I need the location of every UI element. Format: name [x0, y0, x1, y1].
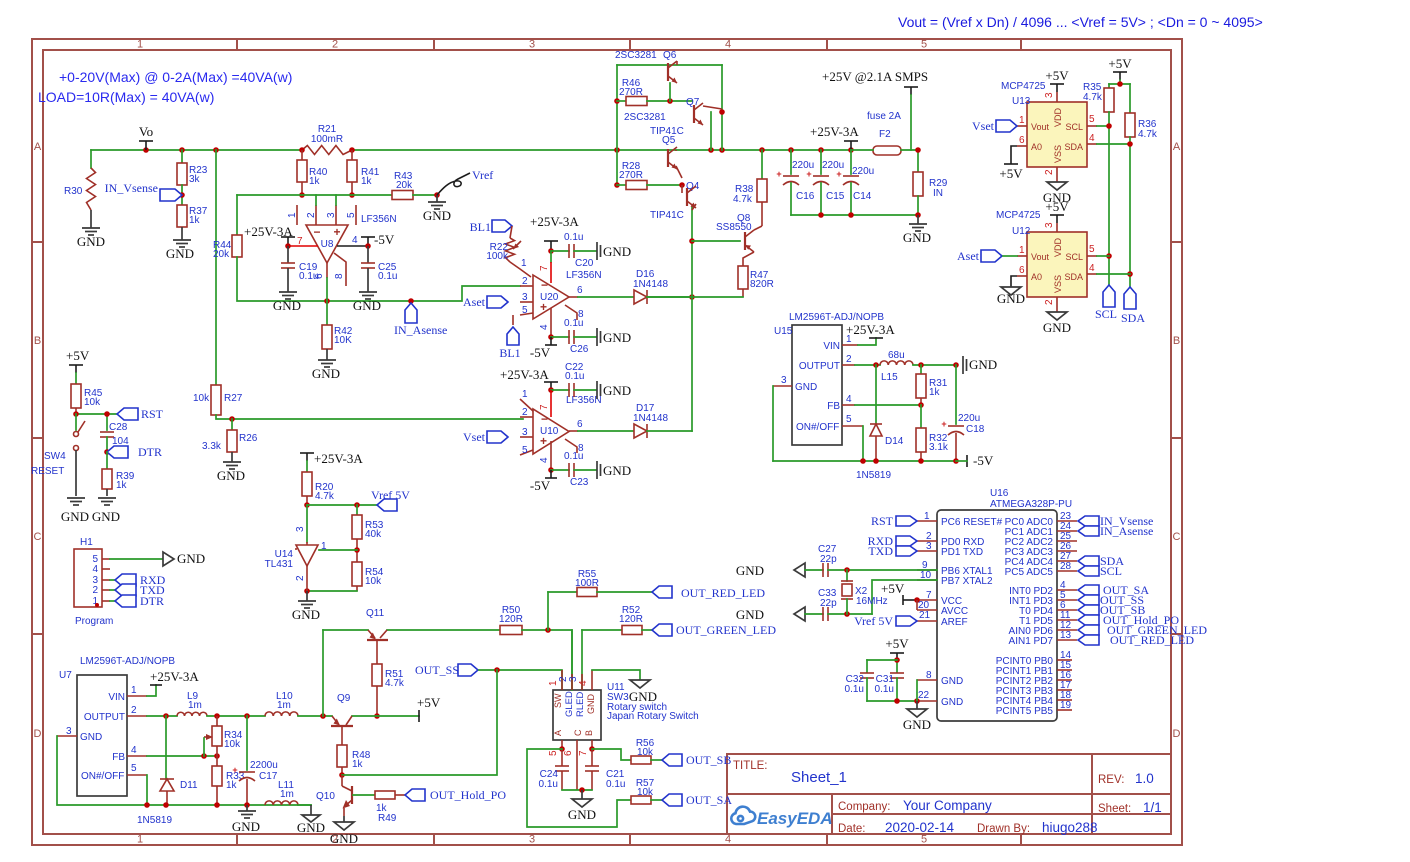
svg-text:16MHz: 16MHz — [856, 596, 888, 607]
svg-text:2: 2 — [295, 575, 306, 581]
svg-text:1k: 1k — [309, 176, 321, 187]
svg-text:VDD: VDD — [1053, 107, 1063, 127]
svg-text:C23: C23 — [570, 477, 589, 488]
svg-text:1N5819: 1N5819 — [856, 470, 891, 481]
svg-text:4: 4 — [92, 564, 98, 575]
svg-text:VIN: VIN — [108, 692, 125, 703]
svg-text:4: 4 — [352, 235, 358, 246]
svg-text:Sheet:: Sheet: — [1098, 803, 1131, 815]
svg-text:SCL: SCL — [1065, 122, 1083, 132]
svg-text:+5V: +5V — [999, 166, 1023, 181]
svg-text:C20: C20 — [575, 258, 594, 269]
svg-text:-5V: -5V — [530, 345, 551, 360]
svg-text:0.1u: 0.1u — [564, 451, 583, 462]
svg-text:5: 5 — [1089, 114, 1095, 125]
svg-text:GND: GND — [603, 383, 631, 398]
svg-text:19: 19 — [1060, 700, 1072, 711]
svg-text:OUTPUT: OUTPUT — [799, 361, 840, 372]
svg-text:fuse 2A: fuse 2A — [867, 111, 901, 122]
svg-text:GND: GND — [353, 298, 381, 313]
svg-text:5: 5 — [522, 445, 528, 456]
svg-text:3.3k: 3.3k — [202, 441, 222, 452]
svg-text:GND: GND — [330, 831, 358, 846]
svg-text:2SC3281: 2SC3281 — [624, 112, 666, 123]
svg-text:270R: 270R — [619, 170, 643, 181]
svg-text:OUT_Hold_PO: OUT_Hold_PO — [430, 788, 506, 802]
svg-text:1: 1 — [1019, 115, 1025, 126]
svg-text:0.1u: 0.1u — [875, 684, 894, 695]
svg-text:Company:: Company: — [838, 801, 890, 813]
svg-text:hiugo288: hiugo288 — [1042, 820, 1098, 835]
svg-text:LOAD=10R(Max) = 40VA(w): LOAD=10R(Max) = 40VA(w) — [38, 89, 214, 105]
svg-text:220u: 220u — [852, 166, 874, 177]
svg-text:1N4148: 1N4148 — [633, 413, 668, 424]
svg-text:-5V: -5V — [374, 232, 395, 247]
svg-text:D11: D11 — [180, 780, 198, 791]
svg-text:100k: 100k — [486, 251, 509, 262]
svg-text:GND: GND — [232, 819, 260, 834]
svg-text:RST: RST — [871, 514, 894, 528]
svg-text:VIN: VIN — [823, 341, 840, 352]
svg-text:3: 3 — [522, 292, 528, 303]
svg-text:-5V: -5V — [530, 478, 551, 493]
svg-text:7: 7 — [578, 750, 589, 756]
svg-text:U16: U16 — [990, 488, 1009, 499]
svg-text:Aset: Aset — [957, 249, 980, 263]
svg-text:SCL: SCL — [1100, 564, 1122, 578]
svg-text:1: 1 — [131, 685, 137, 696]
svg-text:GND: GND — [61, 509, 89, 524]
svg-text:C: C — [34, 531, 42, 543]
svg-text:SW: SW — [553, 693, 563, 708]
svg-text:LF356N: LF356N — [566, 270, 602, 281]
svg-text:F2: F2 — [879, 129, 891, 140]
svg-text:D14: D14 — [885, 436, 904, 447]
svg-text:Vo: Vo — [139, 124, 153, 139]
svg-text:+25V-3A: +25V-3A — [314, 451, 363, 466]
svg-text:1k: 1k — [189, 215, 201, 226]
svg-text:BL1: BL1 — [499, 346, 520, 360]
svg-text:GND: GND — [1043, 320, 1071, 335]
svg-text:8: 8 — [334, 273, 345, 279]
svg-text:+: + — [333, 225, 340, 239]
svg-text:LM2596T-ADJ/NOPB: LM2596T-ADJ/NOPB — [80, 656, 175, 667]
svg-text:5: 5 — [921, 834, 927, 846]
svg-text:B: B — [1173, 335, 1180, 347]
svg-text:0.1u: 0.1u — [565, 371, 584, 382]
svg-text:3: 3 — [295, 526, 306, 532]
svg-text:+25V-3A: +25V-3A — [500, 367, 549, 382]
svg-text:+: + — [232, 765, 237, 775]
svg-text:1k: 1k — [226, 780, 238, 791]
svg-text:+25V @2.1A SMPS: +25V @2.1A SMPS — [822, 69, 928, 84]
svg-text:1: 1 — [1019, 245, 1025, 256]
svg-text:5: 5 — [346, 212, 357, 218]
svg-text:C18: C18 — [966, 424, 985, 435]
svg-text:+5V: +5V — [1045, 199, 1069, 214]
svg-text:13: 13 — [1060, 630, 1072, 641]
svg-text:−: − — [541, 412, 548, 426]
svg-text:VDD: VDD — [1053, 237, 1063, 257]
svg-text:Your Company: Your Company — [903, 798, 992, 813]
svg-text:U10: U10 — [540, 426, 559, 437]
svg-text:VSS: VSS — [1053, 145, 1063, 163]
svg-text:EasyEDA: EasyEDA — [757, 809, 833, 828]
svg-text:Vout = (Vref x Dn) / 4096 ...: Vout = (Vref x Dn) / 4096 ... <Vref = 5V… — [898, 14, 1263, 30]
svg-text:ATMEGA328P-PU: ATMEGA328P-PU — [990, 499, 1072, 510]
svg-text:R49: R49 — [378, 813, 397, 824]
svg-text:Vset: Vset — [463, 430, 486, 444]
svg-text:1: 1 — [137, 834, 143, 846]
svg-text:-5V: -5V — [973, 453, 994, 468]
svg-text:U12: U12 — [1012, 226, 1031, 237]
svg-text:A0: A0 — [1031, 142, 1042, 152]
svg-text:OUTPUT: OUTPUT — [84, 712, 125, 723]
svg-text:LF356N: LF356N — [361, 214, 397, 225]
svg-text:22p: 22p — [820, 598, 837, 609]
svg-text:GND: GND — [795, 382, 817, 393]
svg-text:GND: GND — [736, 563, 764, 578]
svg-text:3: 3 — [326, 212, 337, 218]
svg-text:4: 4 — [1089, 133, 1095, 144]
svg-text:270R: 270R — [619, 87, 643, 98]
svg-text:21: 21 — [919, 610, 931, 621]
svg-text:OUT_RED_LED: OUT_RED_LED — [1110, 633, 1194, 647]
svg-text:4: 4 — [846, 394, 852, 405]
svg-text:GND: GND — [969, 357, 997, 372]
svg-text:GND: GND — [568, 807, 596, 822]
svg-text:OUT_GREEN_LED: OUT_GREEN_LED — [676, 623, 776, 637]
svg-text:GLED: GLED — [564, 691, 575, 717]
svg-text:+5V: +5V — [881, 581, 905, 596]
svg-text:GND: GND — [941, 697, 963, 708]
svg-text:B: B — [34, 335, 41, 347]
svg-text:4: 4 — [1089, 263, 1095, 274]
svg-text:2: 2 — [846, 354, 852, 365]
svg-text:0.1u: 0.1u — [564, 318, 583, 329]
svg-text:GND: GND — [997, 291, 1025, 306]
svg-text:1m: 1m — [280, 789, 294, 800]
svg-text:Q11: Q11 — [366, 608, 385, 619]
svg-text:C26: C26 — [570, 344, 589, 355]
svg-text:Japan Rotary Switch: Japan Rotary Switch — [607, 711, 699, 722]
svg-text:1: 1 — [137, 39, 143, 51]
svg-text:Date:: Date: — [838, 823, 866, 835]
svg-text:6: 6 — [577, 285, 583, 296]
svg-text:4.7k: 4.7k — [1083, 92, 1103, 103]
svg-text:SDA: SDA — [1064, 272, 1083, 282]
svg-text:C17: C17 — [259, 771, 278, 782]
svg-text:+: + — [941, 419, 946, 429]
svg-text:0.1u: 0.1u — [539, 779, 558, 790]
svg-text:6: 6 — [314, 273, 325, 279]
svg-text:1N4148: 1N4148 — [633, 279, 668, 290]
svg-text:OUT_RED_LED: OUT_RED_LED — [681, 586, 765, 600]
svg-text:1k: 1k — [352, 759, 364, 770]
svg-text:5: 5 — [1089, 244, 1095, 255]
svg-text:BL1: BL1 — [470, 220, 491, 234]
svg-text:GND: GND — [177, 551, 205, 566]
svg-text:2200u: 2200u — [250, 760, 278, 771]
svg-text:3: 3 — [522, 427, 528, 438]
svg-text:+25V-3A: +25V-3A — [530, 214, 579, 229]
svg-text:Vref: Vref — [472, 168, 493, 182]
svg-text:MCP4725: MCP4725 — [996, 210, 1041, 221]
svg-text:OUT_SB: OUT_SB — [686, 753, 731, 767]
svg-text:TXD: TXD — [868, 544, 893, 558]
svg-text:2: 2 — [1044, 299, 1055, 305]
svg-text:AIN1 PD7: AIN1 PD7 — [1009, 636, 1054, 647]
svg-text:220u: 220u — [958, 413, 980, 424]
svg-text:1m: 1m — [188, 700, 202, 711]
svg-text:20k: 20k — [396, 180, 413, 191]
svg-text:GND: GND — [941, 676, 963, 687]
svg-text:2: 2 — [131, 705, 137, 716]
svg-text:C: C — [1173, 531, 1181, 543]
svg-text:PCINT5 PB5: PCINT5 PB5 — [996, 706, 1054, 717]
svg-text:D: D — [34, 728, 42, 740]
svg-text:IN_Asense: IN_Asense — [1100, 524, 1153, 538]
svg-text:Drawn By:: Drawn By: — [977, 823, 1030, 835]
svg-text:2: 2 — [522, 407, 528, 418]
svg-text:TIP41C: TIP41C — [650, 210, 684, 221]
svg-text:2SC3281: 2SC3281 — [615, 50, 657, 61]
svg-text:IN_Asense: IN_Asense — [394, 323, 447, 337]
svg-text:0.1u: 0.1u — [378, 271, 397, 282]
svg-text:10k: 10k — [637, 747, 654, 758]
svg-text:VSS: VSS — [1053, 275, 1063, 293]
svg-text:68u: 68u — [888, 350, 905, 361]
svg-text:2: 2 — [522, 276, 528, 287]
svg-text:3: 3 — [1044, 222, 1055, 228]
svg-text:4: 4 — [725, 39, 731, 51]
svg-text:PC6 RESET#: PC6 RESET# — [941, 517, 1003, 528]
svg-text:SCL: SCL — [1065, 252, 1083, 262]
svg-text:PD1 TXD: PD1 TXD — [941, 547, 983, 558]
svg-text:RLED: RLED — [575, 692, 586, 717]
svg-text:ON#/OFF: ON#/OFF — [81, 771, 124, 782]
svg-text:0.1u: 0.1u — [564, 232, 583, 243]
svg-text:0.1u: 0.1u — [845, 684, 864, 695]
svg-text:−: − — [313, 225, 320, 239]
svg-text:R30: R30 — [64, 186, 83, 197]
svg-text:SCL: SCL — [1095, 307, 1117, 321]
svg-text:1: 1 — [522, 389, 528, 400]
svg-text:2: 2 — [1044, 169, 1055, 175]
svg-text:GND: GND — [292, 607, 320, 622]
svg-text:Vref 5V: Vref 5V — [854, 614, 893, 628]
svg-text:Q9: Q9 — [337, 693, 351, 704]
svg-text:GND: GND — [297, 820, 325, 835]
svg-text:RESET: RESET — [31, 466, 64, 477]
svg-text:820R: 820R — [750, 279, 774, 290]
svg-text:Program: Program — [75, 616, 113, 627]
svg-text:+5V: +5V — [66, 348, 90, 363]
svg-text:120R: 120R — [499, 614, 523, 625]
svg-text:FB: FB — [827, 401, 840, 412]
svg-text:10k: 10k — [193, 393, 210, 404]
svg-text:ON#/OFF: ON#/OFF — [796, 422, 839, 433]
svg-text:DTR: DTR — [140, 594, 164, 608]
svg-text:DTR: DTR — [138, 445, 162, 459]
svg-text:4: 4 — [539, 324, 550, 330]
svg-text:GND: GND — [603, 244, 631, 259]
svg-text:4.7k: 4.7k — [1138, 129, 1158, 140]
svg-text:GND: GND — [736, 607, 764, 622]
svg-text:1: 1 — [924, 511, 930, 522]
svg-text:5: 5 — [846, 414, 852, 425]
svg-text:10k: 10k — [365, 576, 382, 587]
svg-text:GND: GND — [77, 234, 105, 249]
svg-text:+5V: +5V — [885, 636, 909, 651]
svg-text:PB7 XTAL2: PB7 XTAL2 — [941, 576, 993, 587]
svg-text:GND: GND — [903, 230, 931, 245]
svg-text:IN_Vsense: IN_Vsense — [105, 181, 158, 195]
svg-text:RST: RST — [141, 407, 164, 421]
svg-text:100R: 100R — [575, 578, 599, 589]
svg-text:1k: 1k — [116, 480, 128, 491]
svg-text:GND: GND — [312, 366, 340, 381]
svg-text:Q5: Q5 — [662, 135, 676, 146]
svg-text:L15: L15 — [881, 372, 898, 383]
svg-text:Q10: Q10 — [316, 791, 335, 802]
svg-text:3: 3 — [1044, 92, 1055, 98]
svg-text:22: 22 — [918, 690, 930, 701]
svg-text:2: 2 — [306, 212, 317, 218]
svg-text:C16: C16 — [796, 191, 815, 202]
svg-text:C14: C14 — [853, 191, 872, 202]
svg-text:TITLE:: TITLE: — [733, 760, 768, 772]
svg-text:4: 4 — [725, 834, 731, 846]
svg-text:D: D — [1173, 728, 1181, 740]
svg-text:3: 3 — [529, 39, 535, 51]
svg-text:GND: GND — [423, 208, 451, 223]
svg-text:R27: R27 — [224, 393, 243, 404]
svg-text:GND: GND — [903, 717, 931, 732]
svg-text:Sheet_1: Sheet_1 — [791, 769, 847, 786]
svg-text:3k: 3k — [189, 174, 201, 185]
svg-text:5: 5 — [522, 305, 528, 316]
svg-text:+25V-3A: +25V-3A — [150, 669, 199, 684]
svg-text:6: 6 — [577, 419, 583, 430]
svg-text:220u: 220u — [792, 160, 814, 171]
svg-text:Q6: Q6 — [663, 50, 677, 61]
svg-text:4.7k: 4.7k — [733, 194, 753, 205]
svg-text:C: C — [573, 729, 583, 736]
svg-text:7: 7 — [297, 236, 303, 247]
svg-text:4.7k: 4.7k — [385, 678, 405, 689]
svg-text:SW4: SW4 — [44, 451, 66, 462]
svg-text:1k: 1k — [361, 176, 373, 187]
svg-text:40k: 40k — [365, 529, 382, 540]
svg-text:Vset: Vset — [972, 119, 995, 133]
svg-text:GND: GND — [217, 468, 245, 483]
svg-text:+25V-3A: +25V-3A — [810, 124, 859, 139]
svg-text:+: + — [776, 169, 781, 179]
svg-text:OUT_SA: OUT_SA — [686, 793, 732, 807]
svg-text:AVCC: AVCC — [941, 606, 968, 617]
svg-text:0.1u: 0.1u — [606, 779, 625, 790]
svg-text:GND: GND — [586, 694, 596, 715]
svg-text:+5V: +5V — [1108, 56, 1132, 71]
svg-text:GND: GND — [92, 509, 120, 524]
svg-text:1/1: 1/1 — [1143, 800, 1162, 815]
svg-text:4: 4 — [578, 680, 589, 686]
svg-text:2020-02-14: 2020-02-14 — [885, 820, 955, 835]
svg-text:7: 7 — [539, 404, 550, 410]
svg-text:6: 6 — [1019, 135, 1025, 146]
svg-text:+5V: +5V — [1045, 68, 1069, 83]
svg-text:2: 2 — [332, 39, 338, 51]
svg-text:+25V-3A: +25V-3A — [846, 322, 895, 337]
svg-text:3.1k: 3.1k — [929, 442, 949, 453]
svg-text:5: 5 — [548, 750, 559, 756]
svg-text:1: 1 — [521, 258, 527, 269]
svg-text:R26: R26 — [239, 433, 258, 444]
svg-text:A: A — [553, 730, 563, 736]
svg-text:AREF: AREF — [941, 617, 968, 628]
svg-text:FB: FB — [112, 752, 125, 763]
svg-text:H1: H1 — [80, 537, 93, 548]
svg-text:MCP4725: MCP4725 — [1001, 81, 1046, 92]
svg-text:B: B — [584, 730, 594, 736]
svg-text:Vout: Vout — [1031, 122, 1050, 132]
svg-text:U20: U20 — [540, 292, 559, 303]
svg-text:A0: A0 — [1031, 272, 1042, 282]
svg-text:3: 3 — [781, 375, 787, 386]
svg-text:1m: 1m — [277, 700, 291, 711]
svg-text:10k: 10k — [224, 739, 241, 750]
svg-text:TL431: TL431 — [265, 559, 294, 570]
svg-text:SDA: SDA — [1064, 142, 1083, 152]
svg-text:IN: IN — [933, 188, 943, 199]
svg-text:U15: U15 — [774, 326, 793, 337]
svg-text:SDA: SDA — [1121, 311, 1145, 325]
svg-text:6: 6 — [1019, 265, 1025, 276]
svg-text:10K: 10K — [334, 335, 352, 346]
svg-text:6: 6 — [563, 750, 574, 756]
svg-text:GND: GND — [603, 330, 631, 345]
svg-text:3: 3 — [529, 834, 535, 846]
svg-text:C15: C15 — [826, 191, 845, 202]
svg-text:28: 28 — [1060, 561, 1072, 572]
svg-text:4.7k: 4.7k — [315, 491, 335, 502]
svg-text:10k: 10k — [84, 397, 101, 408]
svg-text:4: 4 — [131, 745, 137, 756]
svg-text:+5V: +5V — [417, 695, 441, 710]
svg-text:Vref 5V: Vref 5V — [371, 488, 410, 502]
svg-text:Vout: Vout — [1031, 252, 1050, 262]
svg-text:20k: 20k — [213, 249, 230, 260]
svg-text:220u: 220u — [822, 160, 844, 171]
svg-text:PC5 ADC5: PC5 ADC5 — [1005, 567, 1054, 578]
svg-text:Aset: Aset — [463, 295, 486, 309]
svg-text:A: A — [34, 141, 42, 153]
svg-text:8: 8 — [926, 670, 932, 681]
svg-text:U8: U8 — [321, 239, 334, 250]
svg-text:A: A — [1173, 141, 1181, 153]
svg-text:100mR: 100mR — [311, 134, 343, 145]
svg-text:OUT_SS: OUT_SS — [415, 663, 459, 677]
svg-text:GND: GND — [166, 246, 194, 261]
svg-text:+0-20V(Max) @ 0-2A(Max) =40VA(: +0-20V(Max) @ 0-2A(Max) =40VA(w) — [59, 69, 292, 85]
svg-text:GND: GND — [80, 732, 102, 743]
svg-text:120R: 120R — [619, 614, 643, 625]
svg-text:GND: GND — [603, 463, 631, 478]
svg-text:REV:: REV: — [1098, 774, 1124, 786]
svg-text:4: 4 — [539, 457, 550, 463]
svg-text:2: 2 — [92, 585, 98, 596]
